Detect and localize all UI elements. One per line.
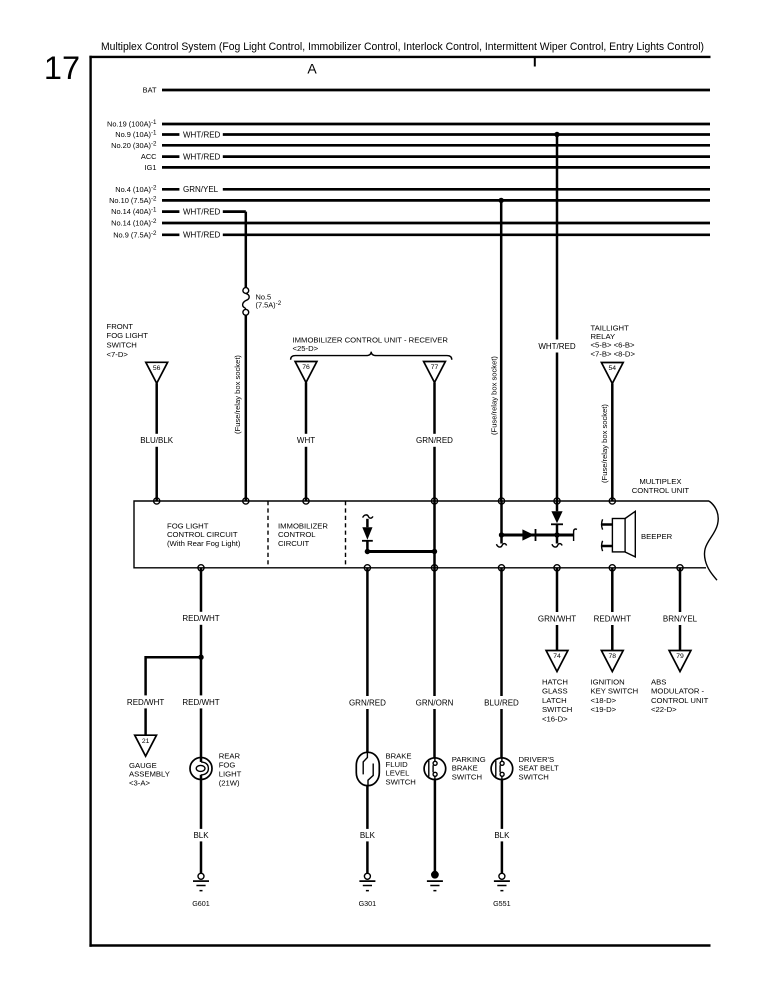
diode D3 pointing right [522,529,534,540]
beeper terminal stub 1 [602,519,603,529]
wire bus BAT [162,89,710,92]
svg-text:BRN/YEL: BRN/YEL [663,614,698,623]
svg-text:WHT/RED: WHT/RED [183,207,221,216]
wire BLK from seat belt switch to ground [501,780,504,874]
svg-text:IG1: IG1 [145,163,157,172]
connector 21 [135,735,157,756]
svg-text:GAUGE: GAUGE [129,761,157,770]
svg-text:GLASS: GLASS [542,687,568,696]
svg-text:CIRCUIT: CIRCUIT [278,539,309,548]
svg-text:GRN/ORN: GRN/ORN [416,698,454,707]
svg-text:SWITCH: SWITCH [452,772,482,781]
svg-text:<3-A>: <3-A> [129,778,150,787]
svg-text:CONTROL: CONTROL [278,530,316,539]
svg-text:A: A [307,61,317,77]
wire BLU/RED from unit to driver's seat belt switch [500,568,503,758]
svg-text:<7-D>: <7-D> [107,350,129,359]
svg-text:CONTROL UNIT: CONTROL UNIT [632,486,690,495]
svg-text:BLK: BLK [193,831,209,840]
svg-text:<25-D>: <25-D> [293,344,319,353]
svg-text:No.19 (100A)-1: No.19 (100A)-1 [107,119,157,129]
svg-text:ABS: ABS [651,678,666,687]
svg-text:LATCH: LATCH [542,696,567,705]
svg-text:77: 77 [431,364,439,371]
svg-text:(Fuse/relay box socket): (Fuse/relay box socket) [600,404,609,483]
svg-text:Multiplex Control System (Fog: Multiplex Control System (Fog Light Cont… [101,41,704,53]
wire bus No.14 (40A)-1 WHT/RED elbow down [162,210,246,213]
svg-text:G601: G601 [192,899,210,908]
svg-text:WHT/RED: WHT/RED [183,231,221,240]
svg-text:SWITCH: SWITCH [519,772,549,781]
terminal circles on top edge [154,498,160,504]
svg-text:FOG: FOG [219,761,236,770]
svg-text:IMMOBILIZER: IMMOBILIZER [278,522,328,531]
svg-text:<16-D>: <16-D> [542,714,568,723]
wire GRN/ORN through unit [433,501,436,568]
svg-text:FLUID: FLUID [386,760,409,769]
svg-text:DRIVER'S: DRIVER'S [519,755,555,764]
svg-text:SWITCH: SWITCH [107,341,137,350]
ground G551 [499,873,505,879]
node junction on No.10 bus [499,198,504,203]
wire BLK from bulb to ground [200,775,203,873]
svg-text:HATCH: HATCH [542,678,568,687]
connector 54 [601,363,623,384]
parking brake switch [424,758,446,780]
node junction D2 on interlock line [554,532,559,537]
svg-text:No.20 (30A)-2: No.20 (30A)-2 [111,140,157,150]
wire bold from D1 to GRN/ORN line [367,550,434,553]
wire BLU/BLK from connector 56 to control unit [155,383,158,501]
beeper terminal stub 2 [602,541,603,551]
wire vertical WHT/RED from No.9 (10A) bus to control unit [556,135,559,502]
svg-text:54: 54 [609,365,617,372]
svg-text:BRAKE: BRAKE [386,751,412,760]
dashed separator 1 [267,501,269,568]
svg-text:TAILLIGHT: TAILLIGHT [591,323,630,332]
wire from fuse No.5 to control unit [245,315,248,501]
node junction [499,532,504,537]
svg-text:IMMOBILIZER CONTROL UNIT - REC: IMMOBILIZER CONTROL UNIT - RECEIVER [293,335,449,344]
svg-text:IGNITION: IGNITION [591,678,625,687]
svg-text:FOG LIGHT: FOG LIGHT [167,522,209,531]
svg-text:SEAT BELT: SEAT BELT [519,764,559,773]
svg-text:FRONT: FRONT [107,322,134,331]
border frame left [89,56,91,947]
wire RED/WHT from unit to connector 78 [611,568,614,651]
svg-text:No.4 (10A)-2: No.4 (10A)-2 [115,184,157,194]
wire bus No.4 (10A)-2 GRN/YEL [162,188,710,191]
wire from parking brake switch to ground [434,780,437,872]
svg-text:56: 56 [153,365,161,372]
svg-text:BRAKE: BRAKE [452,764,478,773]
wire vertical from No.10 bus to control unit [500,200,503,501]
border frame bottom [89,944,710,946]
ground (sealed) at parking brake switch [431,871,439,879]
svg-text:RED/WHT: RED/WHT [182,698,219,707]
interlock line end bar with hook [574,529,577,541]
wire GRN/RED from connector 77 to control unit [433,383,436,502]
svg-text:GRN/RED: GRN/RED [349,698,386,707]
svg-text:GRN/RED: GRN/RED [416,436,453,445]
rear fog light bulb [190,758,212,780]
node junction on GRN/ORN line [432,549,437,554]
wire bus No.9 (7.5A)-2 WHT/RED [162,233,710,236]
svg-text:<5-B> <6-B>: <5-B> <6-B> [591,341,636,350]
svg-text:BAT: BAT [143,86,157,95]
svg-text:ASSEMBLY: ASSEMBLY [129,770,170,779]
svg-text:ACC: ACC [141,152,157,161]
wire bus ACC WHT/RED [162,155,710,158]
wire bus No.14 (10A)-2 [162,222,710,225]
svg-text:KEY SWITCH: KEY SWITCH [591,687,639,696]
svg-text:78: 78 [609,653,617,660]
wire GRN/RED from unit to brake fluid level switch [366,568,369,753]
svg-text:No.9 (10A)-1: No.9 (10A)-1 [115,130,157,140]
svg-text:BLK: BLK [494,831,510,840]
svg-text:BLK: BLK [360,831,376,840]
svg-text:RELAY: RELAY [591,332,616,341]
svg-text:(With Rear Fog Light): (With Rear Fog Light) [167,539,241,548]
svg-text:<22-D>: <22-D> [651,705,677,714]
brake fluid level switch [356,752,379,785]
svg-text:LIGHT: LIGHT [219,770,242,779]
continuation squiggle below junction [496,544,506,547]
node junction diode D1 output [365,549,370,554]
wire from top terminal down to interlock line [500,501,503,544]
svg-text:76: 76 [302,364,310,371]
border frame top [89,56,710,58]
diode D1 internal continuation squiggle [363,515,373,518]
diode D1 [366,519,369,528]
svg-text:No.9 (7.5A)-2: No.9 (7.5A)-2 [113,230,157,240]
wire branch to gauge assembly [146,657,201,735]
svg-text:(Fuse/relay box socket): (Fuse/relay box socket) [233,355,242,434]
wire bus No.9 (10A)-1 WHT/RED [162,133,710,136]
connector 76 [295,362,317,383]
connector 74 [546,651,568,672]
connector 78 [601,651,623,672]
svg-text:RED/WHT: RED/WHT [182,614,219,623]
wire BLK from switch to ground [366,786,369,873]
wire from connector 54 to control unit [611,384,614,502]
svg-text:17: 17 [44,50,80,86]
wire GRN/ORN from unit to parking brake switch [433,568,436,758]
fuse No.5 (7.5A)-2 [243,288,249,294]
svg-text:RED/WHT: RED/WHT [594,614,631,623]
svg-text:No.14 (10A)-2: No.14 (10A)-2 [111,218,157,228]
wire BRN/YEL from unit to connector 79 [679,568,682,651]
node junction RED/WHT branch [198,655,203,660]
beeper speaker symbol [612,519,625,552]
svg-text:CONTROL UNIT: CONTROL UNIT [651,696,709,705]
svg-text:BLU/BLK: BLU/BLK [140,436,174,445]
wire WHT from connector 76 to control unit [305,383,308,502]
svg-text:CONTROL CIRCUIT: CONTROL CIRCUIT [167,530,238,539]
section tick [534,58,536,67]
wire bus No.19 (100A)-1 [162,123,710,126]
svg-text:BLU/RED: BLU/RED [484,698,519,707]
svg-text:WHT: WHT [297,436,315,445]
driver's seat belt switch [491,758,513,780]
svg-text:REAR: REAR [219,752,241,761]
svg-text:RED/WHT: RED/WHT [127,698,164,707]
continuation squiggle below D2 [552,544,562,547]
svg-text:No.14 (40A)-1: No.14 (40A)-1 [111,207,157,217]
wire GRN/WHT from unit to connector 74 [556,568,559,651]
svg-text:WHT/RED: WHT/RED [538,342,576,351]
svg-text:79: 79 [676,653,684,660]
wire bold interlock line [502,534,574,537]
connector 77 [424,362,446,383]
svg-text:(Fuse/relay box socket): (Fuse/relay box socket) [489,356,498,435]
node junction on No.9 (10A) bus [554,132,559,137]
wire RED/WHT from unit to rear fog light [200,568,203,758]
svg-text:<18-D>: <18-D> [591,696,617,705]
multiplex control unit box [134,501,709,568]
svg-text:G301: G301 [359,899,377,908]
torn right edge of control unit [704,501,718,580]
svg-text:WHT/RED: WHT/RED [183,152,221,161]
svg-text:PARKING: PARKING [452,755,486,764]
svg-text:(21W): (21W) [219,779,240,788]
svg-text:74: 74 [553,653,561,660]
dashed separator 2 [345,501,347,568]
wire bus No.20 (30A)-2 [162,144,710,147]
svg-text:FOG LIGHT: FOG LIGHT [107,331,149,340]
connector 79 [669,651,691,672]
svg-text:MODULATOR -: MODULATOR - [651,687,705,696]
svg-text:WHT/RED: WHT/RED [183,130,221,139]
svg-text:21: 21 [142,738,150,745]
terminal circles on bottom edge [198,565,204,571]
svg-text:<19-D>: <19-D> [591,705,617,714]
svg-text:GRN/WHT: GRN/WHT [538,614,576,623]
svg-text:GRN/YEL: GRN/YEL [183,185,219,194]
svg-text:SWITCH: SWITCH [542,705,572,714]
svg-text:SWITCH: SWITCH [386,777,416,786]
svg-text:<7-B> <8-D>: <7-B> <8-D> [591,349,636,358]
wire bus IG1 [162,166,710,169]
wire bus No.10 (7.5A)-2 [162,199,710,202]
svg-text:G551: G551 [493,899,511,908]
diode D2 from WHT/RED terminal [556,501,559,511]
wire vertical from No.14 (40A) down to fuse No.5 [245,212,248,288]
svg-text:BEEPER: BEEPER [641,532,673,541]
svg-text:MULTIPLEX: MULTIPLEX [639,477,681,486]
connector 56 [146,362,168,383]
svg-text:No.10 (7.5A)-2: No.10 (7.5A)-2 [109,195,157,205]
ground G301 [364,873,370,879]
svg-text:LEVEL: LEVEL [386,769,411,778]
bracket over connectors 76 and 77 [291,352,452,360]
ground G601 [198,873,204,879]
